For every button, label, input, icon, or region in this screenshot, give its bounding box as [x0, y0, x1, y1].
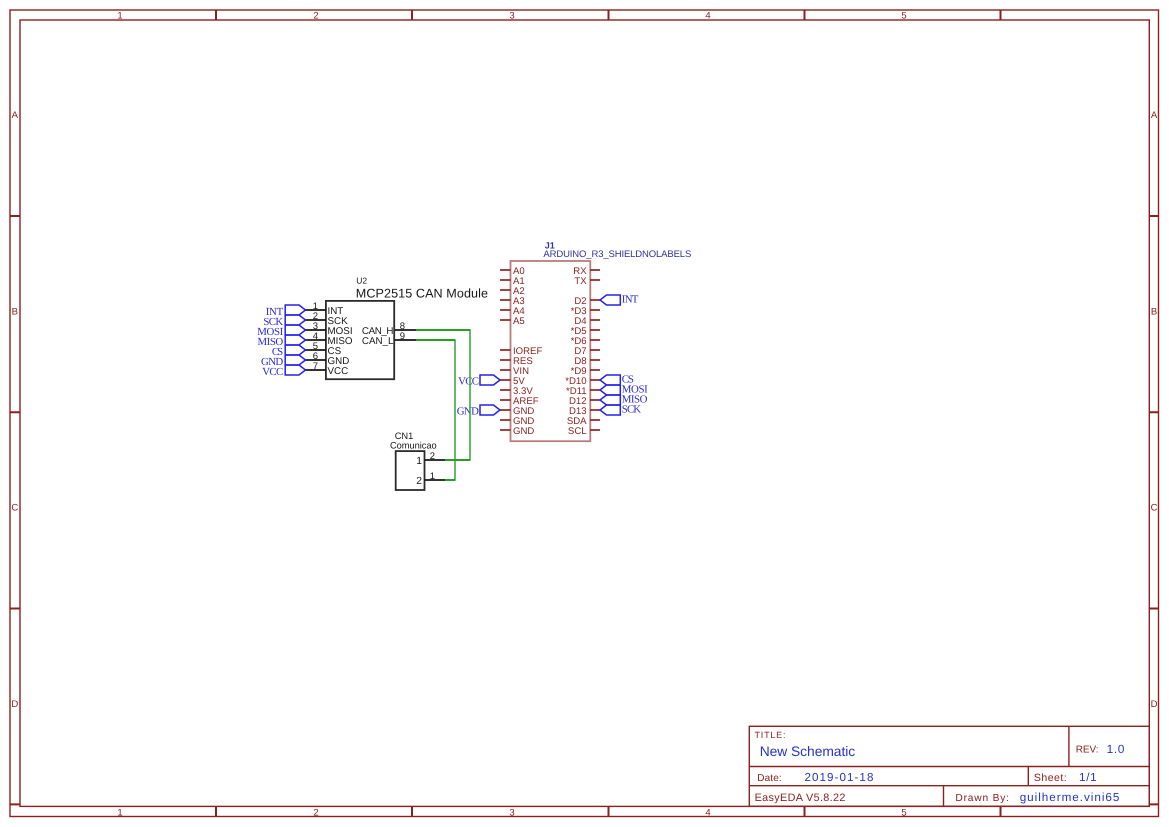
J1 right pin TX: [574, 276, 600, 287]
J1 left pin A5: [500, 316, 525, 327]
J1 left pin 3.3V: [500, 386, 533, 397]
svg-text:9: 9: [400, 331, 405, 342]
svg-text:A: A: [1151, 110, 1158, 121]
IC U2 body: [326, 301, 394, 379]
svg-text:1: 1: [416, 456, 422, 467]
J1 right pin *D5: [571, 326, 600, 337]
svg-text:ARDUINO_R3_SHIELDNOLABELS: ARDUINO_R3_SHIELDNOLABELS: [543, 249, 691, 260]
U2 pin 9 CAN_L: [362, 331, 416, 347]
svg-text:D: D: [1151, 699, 1158, 710]
svg-text:7: 7: [313, 361, 318, 372]
net flag INT at U2 pin 1: [266, 305, 306, 318]
J1 right pin SCL: [568, 426, 600, 437]
svg-text:2: 2: [313, 807, 318, 818]
svg-text:1/1: 1/1: [1079, 771, 1097, 784]
svg-text:Sheet:: Sheet:: [1034, 772, 1067, 784]
J1 right pin SDA: [567, 416, 600, 427]
svg-text:2019-01-18: 2019-01-18: [805, 771, 874, 784]
net flag GND at U2 pin 6: [261, 355, 306, 368]
U2 pin 8 CAN_H: [362, 321, 416, 337]
svg-text:C: C: [1151, 503, 1158, 514]
svg-text:3: 3: [509, 807, 514, 818]
J1 left pin A3: [500, 296, 525, 307]
U2 pin 4 MISO: [306, 331, 353, 347]
svg-text:GND: GND: [513, 426, 534, 437]
svg-text:D: D: [11, 699, 18, 710]
svg-text:Comunicao: Comunicao: [390, 441, 437, 451]
J1 right pin *D9: [571, 366, 600, 377]
svg-text:VCC: VCC: [458, 376, 479, 388]
J1 right pin D7: [574, 346, 600, 357]
net flag MISO at J1: [600, 394, 648, 406]
svg-text:2: 2: [416, 476, 422, 487]
svg-text:Date:: Date:: [757, 773, 782, 784]
J1 right pin D12: [569, 396, 600, 407]
svg-text:B: B: [1151, 307, 1157, 318]
svg-text:A: A: [12, 110, 19, 121]
svg-text:INT: INT: [622, 294, 639, 306]
J1 left pin A2: [500, 286, 525, 297]
svg-text:4: 4: [705, 10, 710, 21]
svg-text:EasyEDA V5.8.22: EasyEDA V5.8.22: [755, 792, 846, 804]
J1 left pin GND: [500, 416, 534, 427]
J1 right pin RX: [573, 266, 600, 277]
J1 right pin *D3: [571, 306, 600, 317]
J1 left pin AREF: [500, 396, 539, 407]
svg-text:REV:: REV:: [1076, 744, 1099, 755]
J1 right pin D2: [574, 296, 600, 307]
J1 left pin 5V: [500, 376, 525, 387]
svg-text:2: 2: [313, 10, 318, 21]
svg-text:SCK: SCK: [622, 404, 641, 416]
svg-text:VCC: VCC: [262, 366, 283, 378]
CN1 pin 2: [416, 451, 445, 467]
connector CN1 body: [396, 451, 425, 490]
CN1 pin 1: [416, 471, 445, 487]
svg-text:A5: A5: [513, 316, 525, 327]
svg-text:TX: TX: [574, 276, 587, 287]
svg-text:4: 4: [705, 807, 710, 818]
svg-text:C: C: [11, 503, 18, 514]
net flag GND at J1: [457, 405, 500, 418]
J1 right pin D4: [574, 316, 600, 327]
J1 left pin GND: [500, 406, 534, 417]
U2 pin 1 INT: [306, 301, 344, 317]
wire CAN_L: U2 pin 9 to CN1 pin 1: [416, 340, 455, 480]
title block frame: [749, 726, 1149, 806]
net flag CS at U2 pin 5: [272, 345, 306, 358]
svg-text:1: 1: [117, 10, 122, 21]
J1 right pin *D6: [571, 336, 600, 347]
net flag VCC at J1: [458, 375, 500, 388]
svg-text:TITLE:: TITLE:: [755, 730, 786, 740]
svg-text:1: 1: [430, 471, 435, 482]
J1 right pin *D10: [565, 376, 600, 387]
svg-text:3: 3: [509, 10, 514, 21]
J1 left pin RES: [500, 356, 533, 367]
svg-text:5: 5: [901, 10, 906, 21]
J1 right pin *D11: [566, 386, 600, 397]
J1 left pin A4: [500, 306, 525, 317]
J1 left pin A0: [500, 266, 525, 277]
svg-text:VCC: VCC: [328, 366, 349, 377]
svg-text:B: B: [12, 307, 18, 318]
svg-text:1: 1: [117, 807, 122, 818]
svg-text:GND: GND: [457, 406, 479, 418]
svg-text:U2: U2: [356, 276, 367, 286]
net flag VCC at U2 pin 7: [262, 365, 305, 378]
svg-text:5: 5: [901, 807, 906, 818]
svg-text:Drawn By:: Drawn By:: [955, 793, 1009, 804]
U2 pin 6 GND: [306, 351, 350, 367]
J1 left pin VIN: [500, 366, 529, 377]
svg-text:1.0: 1.0: [1107, 742, 1125, 756]
svg-text:MCP2515 CAN Module: MCP2515 CAN Module: [356, 287, 488, 301]
net flag INT at J1: [600, 294, 639, 306]
U2 pin 3 MOSI: [306, 321, 353, 337]
J1 left pin IOREF: [500, 346, 542, 357]
net flag MOSI at J1: [600, 384, 648, 396]
J1 left pin A1: [500, 276, 525, 287]
wire CAN_H: U2 pin 8 to CN1 pin 2: [416, 330, 470, 460]
svg-text:guilherme.vini65: guilherme.vini65: [1020, 791, 1120, 804]
svg-text:CAN_L: CAN_L: [362, 336, 394, 347]
net flag SCK at J1: [600, 404, 641, 416]
svg-text:SCL: SCL: [568, 426, 587, 437]
net flag CS at J1: [600, 374, 634, 386]
net flag MOSI at U2 pin 3: [257, 325, 305, 338]
U2 pin 2 SCK: [306, 311, 349, 327]
net flag SCK at U2 pin 2: [263, 315, 305, 328]
U2 pin 5 CS: [306, 341, 342, 357]
svg-text:New Schematic: New Schematic: [760, 744, 856, 759]
net flag MISO at U2 pin 4: [258, 335, 306, 348]
J1 left pin GND: [500, 426, 534, 437]
J1 right pin D8: [574, 356, 600, 367]
U2 pin 7 VCC: [306, 361, 349, 377]
svg-text:CN1: CN1: [395, 431, 414, 441]
J1 right pin D13: [569, 406, 600, 417]
connector J1 body: [511, 261, 591, 441]
svg-text:2: 2: [430, 451, 435, 462]
